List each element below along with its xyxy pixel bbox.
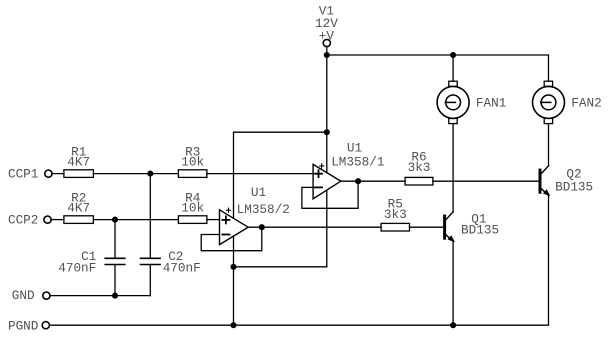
svg-text:U1: U1 xyxy=(251,185,266,200)
value label U1 LM358/1 xyxy=(331,141,384,170)
value label C2 470nF xyxy=(163,249,201,275)
wire op-amp U1/2 V- pin xyxy=(233,236,235,267)
wire V- rail down to PGND xyxy=(233,267,235,325)
svg-text:3k3: 3k3 xyxy=(408,160,431,175)
svg-text:BD135: BD135 xyxy=(555,179,593,194)
wire +V vertical to op-amp supply rail xyxy=(326,55,328,132)
wire R3 to op-amp U1/1 + input xyxy=(207,173,313,175)
node junction FAN1 top xyxy=(451,53,456,58)
node junction U1/1 output xyxy=(356,179,361,184)
wire +V rail drop to FAN1 xyxy=(452,55,454,81)
value label U1 LM358/2 xyxy=(237,185,290,217)
svg-text:FAN1: FAN1 xyxy=(476,96,506,111)
wire CCP2 to R2 xyxy=(52,219,64,221)
svg-text:LM358/1: LM358/1 xyxy=(331,155,384,170)
svg-text:4K7: 4K7 xyxy=(67,201,90,216)
value label Q1 BD135 xyxy=(461,211,499,237)
svg-text:470nF: 470nF xyxy=(163,260,201,275)
wire U1/1 feedback loop xyxy=(302,181,358,208)
wire CCP1 to R1 xyxy=(52,173,64,175)
op-amp U1 LM358/1 xyxy=(313,164,341,199)
resistor R5 xyxy=(381,223,409,231)
resistor R2 xyxy=(64,216,94,224)
value label FAN2 xyxy=(571,96,601,111)
wire op-amp U1/1 V- pin xyxy=(326,191,328,267)
value label R5 3k3 xyxy=(384,196,407,222)
svg-text:BD135: BD135 xyxy=(461,222,499,237)
wire FAN1 to Q1 collector xyxy=(452,124,454,212)
node junction PGND/op-amp ground xyxy=(231,323,236,328)
value label Q2 BD135 xyxy=(555,167,593,195)
node junction CCP1/C2 xyxy=(148,171,153,176)
node junction PGND/Q1 emitter xyxy=(451,323,456,328)
svg-text:10k: 10k xyxy=(181,155,204,170)
wire op-amp U1/2 output xyxy=(248,226,381,228)
svg-text:U1: U1 xyxy=(347,141,362,156)
value label V1 12V +V xyxy=(315,4,338,44)
transistor Q2 xyxy=(539,166,551,196)
value label R4 10k xyxy=(181,190,204,215)
wire top +V rail xyxy=(327,55,549,81)
wire op-amp U1/1 V+ pin xyxy=(326,132,328,173)
terminal CCP2 xyxy=(44,216,51,223)
wire R4 to op-amp U1/2 + input xyxy=(207,219,220,221)
svg-text:CCP2: CCP2 xyxy=(8,212,38,227)
node junction +V rail xyxy=(324,53,329,58)
op-amp U1 LM358/2 xyxy=(220,208,249,245)
svg-text:+V: +V xyxy=(319,29,335,44)
terminal CCP1 xyxy=(45,170,52,177)
svg-text:LM358/2: LM358/2 xyxy=(237,202,290,217)
svg-text:10k: 10k xyxy=(181,201,204,216)
wire R6 to Q2 base xyxy=(433,180,539,182)
value label R3 10k xyxy=(181,144,204,169)
value label C1 470nF xyxy=(58,249,96,275)
resistor R4 xyxy=(178,216,207,224)
capacitor C2 xyxy=(141,174,161,296)
motor FAN1 xyxy=(437,81,469,123)
terminal GND xyxy=(43,292,50,299)
capacitor C1 xyxy=(105,220,125,296)
wire PGND rail xyxy=(50,195,549,325)
wire op-amp U1/1 output to R6 xyxy=(341,180,405,182)
node junction V- rail xyxy=(231,264,236,269)
svg-text:FAN2: FAN2 xyxy=(571,96,601,111)
svg-text:CCP1: CCP1 xyxy=(8,166,38,181)
wire op-amp V- rail to PGND xyxy=(234,266,327,268)
svg-text:470nF: 470nF xyxy=(58,260,96,275)
terminal PGND xyxy=(42,322,49,329)
svg-text:GND: GND xyxy=(12,288,35,303)
node junction CCP2/C1 xyxy=(113,217,118,222)
svg-text:PGND: PGND xyxy=(8,319,38,334)
resistor R3 xyxy=(178,170,207,178)
value label R6 3k3 xyxy=(408,150,431,176)
wire R2 to R4 xyxy=(93,219,178,221)
value label R1 4K7 xyxy=(67,144,90,169)
node junction U1/2 output xyxy=(259,225,264,230)
wire Q1 emitter to PGND xyxy=(452,241,454,325)
wire R5 to Q1 base xyxy=(410,226,444,228)
wire R1 to R3 xyxy=(93,173,178,175)
svg-text:3k3: 3k3 xyxy=(384,207,407,222)
resistor R1 xyxy=(64,170,94,178)
power terminal V1 +V xyxy=(323,39,330,46)
node junction op-amp V+ rail xyxy=(324,130,329,135)
wire FAN2 to Q2 collector xyxy=(548,124,550,166)
motor FAN2 xyxy=(533,81,565,123)
value label FAN1 xyxy=(476,96,506,111)
wire +V terminal to top rail xyxy=(326,47,328,55)
transistor Q1 xyxy=(443,212,455,242)
value label R2 4K7 xyxy=(67,190,90,215)
wire op-amp V+ rail xyxy=(234,132,327,218)
svg-text:4K7: 4K7 xyxy=(67,155,90,170)
wire GND row xyxy=(50,295,150,297)
wire U1/2 feedback loop xyxy=(201,227,262,251)
node junction GND/C1 xyxy=(113,293,118,298)
resistor R6 xyxy=(405,177,433,185)
